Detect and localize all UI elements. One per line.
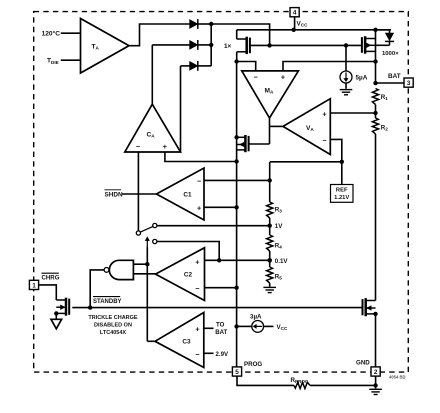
svg-text:−: −: [197, 176, 201, 185]
svg-text:−: −: [195, 350, 199, 359]
svg-text:3µA: 3µA: [250, 313, 262, 320]
svg-text:REF: REF: [336, 188, 348, 194]
svg-text:C1: C1: [183, 191, 192, 198]
svg-text:3: 3: [407, 80, 411, 87]
svg-text:TO: TO: [216, 321, 225, 328]
svg-text:120°C: 120°C: [42, 30, 61, 38]
svg-text:+: +: [281, 72, 285, 81]
svg-text:+: +: [195, 324, 199, 333]
svg-text:−: −: [322, 136, 326, 145]
svg-text:−: −: [136, 142, 140, 151]
svg-text:1×: 1×: [224, 43, 232, 50]
svg-text:2: 2: [374, 369, 378, 376]
svg-text:LTC4054X: LTC4054X: [100, 330, 127, 336]
svg-text:PROG: PROG: [244, 361, 262, 368]
svg-text:−: −: [195, 284, 199, 293]
svg-text:2.9V: 2.9V: [216, 351, 229, 358]
svg-text:CHRG: CHRG: [42, 275, 60, 282]
svg-text:5µA: 5µA: [356, 75, 368, 82]
svg-text:+: +: [322, 110, 326, 119]
svg-text:SHDN: SHDN: [105, 192, 123, 199]
svg-text:STANDBY: STANDBY: [93, 299, 122, 305]
svg-text:4: 4: [293, 10, 297, 17]
svg-text:GND: GND: [356, 360, 370, 367]
svg-text:C3: C3: [182, 339, 191, 346]
svg-text:C2: C2: [184, 272, 193, 279]
svg-text:+: +: [197, 204, 201, 213]
svg-text:+: +: [163, 142, 167, 151]
svg-text:1.21V: 1.21V: [334, 195, 349, 201]
svg-text:BAT: BAT: [215, 329, 227, 336]
svg-text:1000×: 1000×: [382, 51, 399, 57]
svg-text:−: −: [254, 72, 258, 81]
svg-text:+: +: [195, 258, 199, 267]
svg-text:4054 BD: 4054 BD: [389, 374, 406, 379]
svg-text:TRICKLE CHARGE: TRICKLE CHARGE: [88, 315, 138, 321]
svg-text:5: 5: [235, 369, 239, 376]
svg-text:1V: 1V: [275, 223, 283, 230]
svg-text:BAT: BAT: [388, 73, 401, 80]
svg-text:DISABLED ON: DISABLED ON: [94, 323, 132, 329]
svg-text:0.1V: 0.1V: [275, 258, 289, 265]
svg-text:1: 1: [32, 282, 36, 289]
